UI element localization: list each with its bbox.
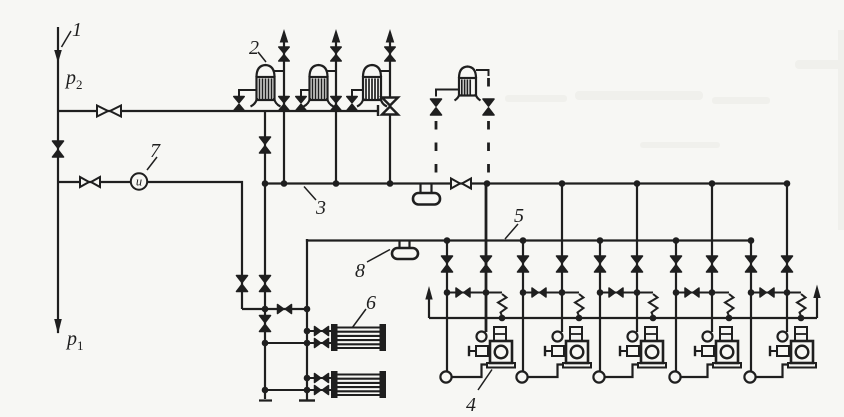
dashed riser right lower xyxy=(487,121,490,181)
vessel A inlet valve xyxy=(234,97,244,111)
node heater B row1 xyxy=(304,375,311,382)
impulse spring line unit 1 xyxy=(498,294,507,316)
odorizer vessel A xyxy=(251,65,281,107)
node vent2 on line3 xyxy=(333,180,340,187)
node right riser on line 3 unit 4 xyxy=(709,180,716,187)
node cross link to riser x307 xyxy=(304,306,311,313)
wire equalizing row unit 1 xyxy=(447,292,502,294)
wire distribution line 3 xyxy=(265,182,790,184)
pilot circle unit 5 xyxy=(778,332,788,342)
wire cross link y309 xyxy=(242,308,307,310)
valve on main riser xyxy=(53,141,64,157)
wire right riser unit 1 xyxy=(485,184,488,333)
vent 2 upper valve xyxy=(331,47,341,61)
wire burner outlet manifold y318 xyxy=(429,317,817,319)
node left riser on line 5 unit 5 xyxy=(748,237,755,244)
vessel C inlet elbow wire xyxy=(352,90,363,96)
wire bypass meter line y182 xyxy=(58,182,242,309)
burner gas nozzle unit 3 xyxy=(620,346,639,356)
valve right riser unit 3 xyxy=(632,256,643,272)
burner gas nozzle unit 5 xyxy=(770,346,789,356)
valve right riser unit 4 xyxy=(707,256,718,272)
pressure pilot bell on line 3 xyxy=(413,184,440,205)
svg-text:1: 1 xyxy=(77,338,84,353)
node right riser on line 3 unit 2 xyxy=(559,180,566,187)
left bypass riser x241 lower part valve xyxy=(237,276,248,292)
air inlet circle unit 4 xyxy=(669,371,680,382)
valve on x265 upper xyxy=(260,137,271,153)
wire right riser unit 2 xyxy=(561,184,563,333)
burner gas nozzle unit 4 xyxy=(695,346,714,356)
wire equalizing row unit 3 xyxy=(600,292,653,294)
node row-right unit 2 xyxy=(559,289,566,296)
wire left riser unit 1 xyxy=(446,241,448,372)
svg-text:p: p xyxy=(65,328,77,350)
svg-text:7: 7 xyxy=(150,140,161,162)
burner apparatus U1 xyxy=(487,327,515,368)
wire left riser unit 4 xyxy=(675,241,677,372)
impulse spring line unit 2 xyxy=(575,294,584,316)
label 4 leader xyxy=(478,370,492,391)
valve on meter line xyxy=(80,177,100,187)
vessel C outlet wire to vent riser xyxy=(381,70,390,72)
valve left riser unit 4 xyxy=(671,256,682,272)
node row-right unit 5 xyxy=(784,289,791,296)
arrow outlet p1 bottom xyxy=(54,319,62,334)
svg-text:и: и xyxy=(136,175,142,189)
node row-right unit 3 xyxy=(634,289,641,296)
vent 3 large lower valve xyxy=(382,98,398,115)
node vent1 on line3 xyxy=(281,180,288,187)
wire air link to burner base unit 1 xyxy=(452,365,487,378)
vent 1 lower valve xyxy=(279,97,289,111)
air inlet circle unit 3 xyxy=(593,371,604,382)
flow meter 7 circle xyxy=(131,173,147,189)
svg-text:6: 6 xyxy=(366,292,376,314)
wire main vertical supply line x58 xyxy=(57,27,59,333)
wire right riser unit 3 xyxy=(636,184,638,333)
heater B row 2 valve xyxy=(315,386,329,395)
label 6 leader xyxy=(352,309,366,328)
wire left riser unit 3 xyxy=(599,241,601,372)
heater A row 1 valve xyxy=(315,327,329,336)
vessel 2 label leader xyxy=(258,52,266,62)
wire equalizing row unit 5 xyxy=(751,292,801,294)
wire distribution line 5 xyxy=(307,239,753,241)
vessel A inlet elbow wire xyxy=(239,90,257,96)
vent 3 upper valve xyxy=(385,47,395,61)
impulse spring line unit 5 xyxy=(797,294,806,316)
heater A row 2 valve xyxy=(315,339,329,348)
node standby riser on line3 xyxy=(484,180,491,187)
node x265 heater B feed xyxy=(262,387,269,394)
label 8 leader xyxy=(367,250,390,263)
node left riser on line 5 unit 4 xyxy=(673,237,680,244)
riser from header with valve (x265) xyxy=(264,111,266,399)
svg-text:2: 2 xyxy=(249,37,259,59)
valve left riser unit 1 xyxy=(442,256,453,272)
odorizer vessel B xyxy=(304,65,334,107)
air inlet circle unit 5 xyxy=(744,371,755,382)
node spring to manifold unit 5 xyxy=(798,315,805,322)
fin heater block A (label 6) xyxy=(332,325,385,350)
valve right riser unit 5 xyxy=(782,256,793,272)
vessel B inlet elbow wire xyxy=(301,90,310,96)
pilot circle unit 1 xyxy=(477,332,487,342)
vent riser 3 xyxy=(386,29,395,183)
svg-text:1: 1 xyxy=(72,19,82,41)
burner apparatus U5 xyxy=(788,327,816,368)
standby vessel outlet wire right elbow xyxy=(476,70,489,76)
burner apparatus U3 xyxy=(638,327,666,368)
node row-left unit 5 xyxy=(748,289,755,296)
impulse spring line unit 3 xyxy=(649,294,658,316)
wire air link to burner base unit 4 xyxy=(681,365,713,378)
air inlet circle unit 1 xyxy=(440,371,451,382)
dashed riser left xyxy=(435,121,438,183)
valve on header line xyxy=(97,106,121,117)
wire equalizing row unit 2 xyxy=(523,292,579,294)
pilot circle unit 3 xyxy=(628,332,638,342)
heater B row 1 valve xyxy=(315,374,329,383)
odorizer vessel C xyxy=(357,65,387,107)
wire air link to burner base unit 5 xyxy=(756,365,788,378)
valve equalizing row unit 4 xyxy=(685,288,699,297)
wire header to vessels y111 xyxy=(58,110,378,112)
pressure pilot bell 8 on line 5 xyxy=(392,241,418,259)
node right riser on line 3 unit 3 xyxy=(634,180,641,187)
heater B row 2 wire xyxy=(265,389,333,391)
burner apparatus U2 xyxy=(563,327,591,368)
vessel B outlet wire to vent riser xyxy=(328,70,337,72)
node spring to manifold unit 3 xyxy=(650,315,657,322)
valve equalizing row unit 2 xyxy=(532,288,546,297)
node row-left unit 1 xyxy=(444,289,451,296)
vent riser 1 xyxy=(280,29,289,183)
node right riser on line 3 unit 5 xyxy=(784,180,791,187)
node spring to manifold unit 4 xyxy=(726,315,733,322)
label 3 leader xyxy=(304,187,316,201)
wire right riser unit 4 xyxy=(711,184,713,333)
vent 1 upper valve xyxy=(279,47,289,61)
burner apparatus U4 xyxy=(713,327,741,368)
burner gas nozzle unit 2 xyxy=(545,346,564,356)
node x265 on cross link xyxy=(262,306,269,313)
wire left riser unit 5 xyxy=(750,241,752,372)
svg-text:3: 3 xyxy=(315,197,326,219)
heater riser x307 from line 5 xyxy=(306,239,308,400)
standby outlet valve xyxy=(483,99,494,115)
node spring to manifold unit 2 xyxy=(576,315,583,322)
svg-text:4: 4 xyxy=(466,394,476,416)
flow arrow down on supply line xyxy=(54,50,62,63)
vent 2 lower valve xyxy=(331,97,341,111)
svg-text:2: 2 xyxy=(76,77,83,92)
node row-right unit 1 xyxy=(483,289,490,296)
valve on x265 middle xyxy=(260,276,271,292)
standby vessel (dashed hookup) xyxy=(455,67,481,101)
valve equalizing row unit 1 xyxy=(456,288,470,297)
node spring to manifold unit 1 xyxy=(499,315,506,322)
node left riser on line 5 unit 1 xyxy=(444,237,451,244)
node vent3 on line3 xyxy=(387,180,394,187)
anchor bar at x307 bottom xyxy=(299,399,315,401)
wire right riser unit 5 xyxy=(786,184,788,333)
label 5 leader xyxy=(505,224,518,239)
valve right riser unit 1 xyxy=(481,256,492,272)
node left riser on line 5 unit 3 xyxy=(597,237,604,244)
svg-text:8: 8 xyxy=(355,260,365,282)
label 7 leader xyxy=(147,157,157,170)
svg-text:5: 5 xyxy=(514,205,524,227)
end cap tick below x265 xyxy=(259,399,272,401)
valve equalizing row unit 3 xyxy=(609,288,623,297)
impulse spring line unit 4 xyxy=(725,294,734,316)
valve on cross link xyxy=(278,305,292,314)
vent riser 2 xyxy=(332,29,341,183)
valve right riser unit 2 xyxy=(557,256,568,272)
heater B row 1 wire xyxy=(307,377,333,379)
vessel C inlet valve xyxy=(347,97,357,111)
valve on line 3 xyxy=(451,179,471,189)
valve left riser unit 5 xyxy=(746,256,757,272)
standby vessel inlet wire left elbow xyxy=(436,90,459,97)
node heater B row2 xyxy=(304,387,311,394)
wire equalizing row unit 4 xyxy=(676,292,729,294)
faint print bleed-through smudges xyxy=(505,30,844,230)
fin heater block B xyxy=(332,372,385,397)
vessel A outlet wire to vent riser xyxy=(275,70,285,72)
node line3 start xyxy=(262,180,269,187)
air inlet circle unit 2 xyxy=(516,371,527,382)
burner gas nozzle unit 1 xyxy=(469,346,488,356)
wire air link to burner base unit 3 xyxy=(605,365,638,378)
node left riser on line 5 unit 2 xyxy=(520,237,527,244)
valve on x265 lower xyxy=(260,316,271,332)
valve equalizing row unit 5 xyxy=(760,288,774,297)
standby inlet valve xyxy=(431,99,442,115)
node row-left unit 3 xyxy=(597,289,604,296)
header end cap tick xyxy=(377,105,379,116)
node heater A row2 xyxy=(304,340,311,347)
pilot circle unit 4 xyxy=(703,332,713,342)
heater A row 1 wire xyxy=(307,330,333,332)
vessel B inlet valve xyxy=(296,97,306,111)
heater A row 2 wire xyxy=(265,342,333,344)
left vent arrow of manifold xyxy=(425,286,432,318)
pilot circle unit 2 xyxy=(553,332,563,342)
dashed riser right upper xyxy=(487,78,490,100)
node row-right unit 4 xyxy=(709,289,716,296)
valve left riser unit 3 xyxy=(595,256,606,272)
svg-text:p: p xyxy=(64,67,76,89)
node heater A row1 xyxy=(304,328,311,335)
valve left riser unit 2 xyxy=(518,256,529,272)
right vent arrow of manifold xyxy=(813,285,820,319)
node row-left unit 2 xyxy=(520,289,527,296)
wire air link to burner base unit 2 xyxy=(528,365,563,378)
node x265 heater A feed xyxy=(262,340,269,347)
wire left riser unit 2 xyxy=(522,241,524,372)
label 1 leader xyxy=(62,31,72,47)
node row-left unit 4 xyxy=(673,289,680,296)
